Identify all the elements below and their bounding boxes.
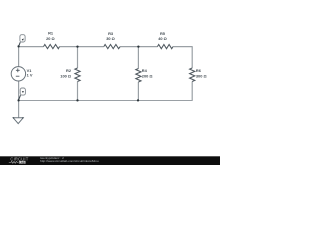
- svg-text:40 Ω: 40 Ω: [158, 36, 167, 41]
- svg-text:30 Ω: 30 Ω: [106, 36, 115, 41]
- wire ground stem: [18, 101, 20, 118]
- resistor R4: [136, 68, 153, 82]
- wire R2 branch lower: [77, 82, 79, 101]
- voltage source V1: [11, 67, 33, 81]
- node junction bottom left: [17, 99, 19, 101]
- wire bottom rail: [19, 100, 193, 102]
- probe flag bottom: [19, 88, 26, 100]
- watermark footer bar: [0, 156, 220, 165]
- wire R4 branch lower: [137, 82, 139, 101]
- resistor R6: [190, 68, 207, 82]
- watermark logo zigzag LAB: [9, 161, 26, 164]
- resistor R2: [60, 68, 80, 82]
- node junction R4 bottom: [137, 99, 139, 101]
- resistor R3: [104, 31, 120, 49]
- svg-text:100 Ω: 100 Ω: [60, 73, 71, 78]
- wire right branch upper: [191, 47, 193, 68]
- ground: [13, 117, 24, 123]
- svg-text:200 Ω: 200 Ω: [142, 73, 153, 78]
- node junction R2 bottom: [76, 99, 78, 101]
- wire top rail between R1 and R3: [60, 46, 104, 48]
- svg-text:LAB: LAB: [19, 161, 24, 164]
- wire left branch upper: [18, 47, 20, 67]
- node junction top left: [17, 45, 19, 47]
- svg-text:20 Ω: 20 Ω: [46, 36, 55, 41]
- svg-text:300 Ω: 300 Ω: [196, 73, 207, 78]
- probe flag top: [19, 35, 25, 47]
- wire top rail left segment: [19, 46, 44, 48]
- wire top rail between R3 and R5: [120, 46, 157, 48]
- node junction R4 top: [137, 45, 139, 47]
- wire left branch lower: [18, 81, 20, 101]
- node junction R2 top: [76, 45, 78, 47]
- resistor R5: [157, 31, 173, 49]
- wire top rail right segment: [173, 46, 193, 48]
- svg-text:1 V: 1 V: [27, 72, 33, 77]
- wire right branch lower: [191, 82, 193, 101]
- svg-text:http://www.circuitlab.com/circ: http://www.circuitlab.com/circuit/mkcw62…: [40, 159, 99, 163]
- wire R2 branch upper: [77, 47, 79, 68]
- resistor R1: [44, 31, 60, 49]
- wire R4 branch upper: [137, 47, 139, 69]
